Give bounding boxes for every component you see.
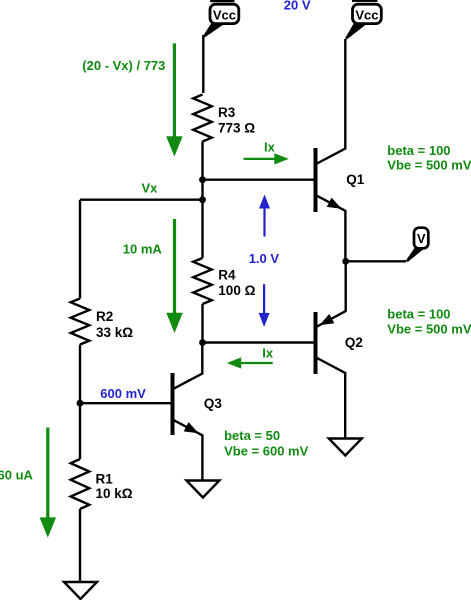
svg-text:R2: R2 bbox=[96, 309, 113, 324]
svg-text:60 uA: 60 uA bbox=[0, 467, 34, 482]
svg-text:Q3: Q3 bbox=[204, 396, 223, 411]
svg-text:(20 - Vx) / 773: (20 - Vx) / 773 bbox=[82, 58, 165, 73]
svg-text:10 mA: 10 mA bbox=[123, 241, 163, 256]
svg-text:Ix: Ix bbox=[262, 346, 274, 361]
svg-text:Q1: Q1 bbox=[346, 172, 365, 187]
svg-text:Ix: Ix bbox=[264, 140, 276, 155]
svg-text:Vcc: Vcc bbox=[355, 7, 378, 22]
svg-text:V: V bbox=[417, 231, 426, 246]
svg-text:20 V: 20 V bbox=[284, 0, 311, 13]
svg-text:beta = 50: beta = 50 bbox=[224, 428, 280, 443]
svg-text:Vbe = 600 mV: Vbe = 600 mV bbox=[224, 444, 309, 459]
svg-text:beta = 100: beta = 100 bbox=[387, 143, 450, 158]
svg-text:Q2: Q2 bbox=[345, 335, 363, 350]
svg-text:R3: R3 bbox=[218, 105, 236, 120]
svg-text:Vbe = 500 mV: Vbe = 500 mV bbox=[387, 322, 471, 337]
svg-text:33 kΩ: 33 kΩ bbox=[96, 325, 133, 340]
svg-text:773 Ω: 773 Ω bbox=[218, 120, 255, 135]
svg-text:Vbe = 500 mV: Vbe = 500 mV bbox=[387, 158, 471, 173]
svg-text:beta = 100: beta = 100 bbox=[387, 307, 450, 322]
svg-text:Vcc: Vcc bbox=[213, 7, 236, 22]
svg-text:100 Ω: 100 Ω bbox=[218, 283, 255, 298]
svg-text:R1: R1 bbox=[96, 471, 114, 486]
svg-text:Vx: Vx bbox=[142, 180, 159, 195]
svg-text:R4: R4 bbox=[218, 268, 236, 283]
svg-text:10 kΩ: 10 kΩ bbox=[96, 486, 133, 501]
svg-text:600 mV: 600 mV bbox=[100, 386, 146, 401]
svg-text:1.0 V: 1.0 V bbox=[249, 251, 280, 266]
